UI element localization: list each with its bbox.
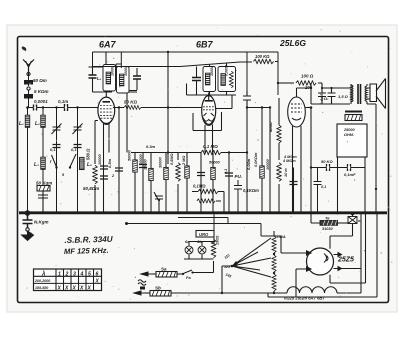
capacitor C9 x=229 — [225, 151, 233, 213]
svg-text:X: X — [95, 278, 100, 284]
svg-text:X: X — [72, 285, 77, 291]
svg-text:0,04m: 0,04m — [246, 158, 251, 170]
wire bus A drops — [93, 52, 248, 91]
capacitor network output — [311, 83, 350, 104]
capacitor C1 series — [34, 105, 37, 111]
capacitor C10 x=247 — [243, 91, 251, 107]
svg-text:10000: 10000 — [144, 159, 148, 170]
wire heater feed below bus — [125, 213, 261, 244]
border frame of schematic sheet — [18, 37, 389, 303]
resistor 5kohm antenna — [24, 87, 49, 108]
tube 25L6G U3 — [288, 97, 306, 213]
capacitor C2 series — [58, 99, 68, 111]
coil L5 — [79, 157, 92, 169]
resistor 100ohm tone — [277, 74, 322, 91]
capacitor C13 x=317.5 — [314, 168, 327, 214]
svg-text:λ: λ — [41, 272, 45, 278]
wire 25L6G grid area — [247, 98, 279, 213]
resistor 50kohm plate 6A7 — [113, 100, 169, 110]
svg-text:Ta: Ta — [325, 216, 330, 221]
resistor 0.1Mohm horizontal above bus — [192, 184, 224, 214]
oscillator coil assembly above 6A7 — [89, 52, 116, 92]
electrolytic block — [337, 124, 367, 157]
svg-text:10000: 10000 — [111, 66, 115, 76]
wire vertical x=247 with label — [246, 106, 251, 213]
svg-text:Fa: Fa — [186, 275, 191, 280]
svg-text:50 Ωm: 50 Ωm — [33, 78, 47, 83]
wire vertical x=168 from top bus to mid bus — [167, 51, 169, 164]
svg-text:10000: 10000 — [210, 66, 214, 76]
svg-text:50 KΩ: 50 KΩ — [321, 159, 333, 164]
svg-text:X: X — [64, 285, 69, 291]
svg-text:N.Kgm: N.Kgm — [34, 220, 49, 225]
svg-text:4: 4 — [80, 271, 84, 277]
svg-text:0,1: 0,1 — [50, 147, 56, 152]
wire mid bus y=152.5 — [131, 152, 247, 154]
svg-text:0,1: 0,1 — [321, 185, 326, 189]
output transformer T3 — [351, 84, 367, 104]
svg-text:0Ω25 25Ωm 6A7 6B7: 0Ω25 25Ωm 6A7 6B7 — [284, 296, 325, 301]
svg-text:1,5 Ω: 1,5 Ω — [338, 94, 349, 99]
resistor 150ohm ballast — [211, 236, 219, 258]
junction dot ground left — [25, 210, 31, 216]
svg-text:Sa: Sa — [161, 267, 167, 272]
svg-text:50 KΩ: 50 KΩ — [124, 100, 138, 105]
wire vertical x=56.5 — [55, 106, 57, 213]
resistor 50ohm antenna — [24, 76, 47, 86]
label box URO — [196, 231, 214, 238]
svg-text:30000: 30000 — [124, 66, 128, 76]
paper speckle noise — [25, 28, 393, 300]
ground bus y=213 — [19, 211, 387, 214]
svg-text:10 m: 10 m — [284, 168, 288, 177]
svg-text:10000: 10000 — [266, 159, 270, 170]
capacitor C6 on x=104 — [100, 166, 108, 179]
svg-text:50 Kgm: 50 Kgm — [36, 181, 52, 186]
svg-text:50000: 50000 — [139, 154, 143, 165]
svg-text:25L6G: 25L6G — [279, 38, 306, 48]
mains squiggle — [138, 280, 146, 290]
resistor 50000 x=135 — [128, 150, 138, 173]
coil L2 — [35, 115, 45, 127]
switch S1 — [50, 155, 58, 169]
tube 6B7 U2 — [202, 93, 216, 126]
svg-text:PU.: PU. — [235, 174, 243, 179]
resistor 600ohm cathode 25L6G — [268, 121, 281, 213]
resistor 0.1Mohm mid bus — [201, 144, 221, 155]
tube label 25L6G — [279, 38, 306, 48]
wire vertical x=119 — [118, 106, 120, 213]
resistor 50000 x=213 — [209, 153, 220, 214]
resistor 10000 x=151 — [144, 153, 154, 214]
wire lower right loop — [268, 213, 377, 297]
svg-text:0,05: 0,05 — [320, 93, 324, 101]
voltage selector fan — [224, 238, 271, 279]
wire rectifier cathode 2 left — [281, 253, 303, 297]
svg-text:1: 1 — [58, 271, 61, 277]
wire vertical x=27.5 to ground bus — [27, 108, 29, 214]
resistor 580ohm cathode 6A7 — [83, 130, 99, 213]
field coil resistor 25000 — [345, 112, 362, 121]
waveband table — [34, 269, 102, 291]
wire plate 25L6G to output — [297, 87, 313, 109]
svg-text:0,0KΩm: 0,0KΩm — [254, 152, 258, 167]
misc value labels — [50, 93, 324, 178]
resistor 100kohm to plate 25L6G — [253, 54, 278, 64]
pilot lamp 6a — [185, 239, 193, 259]
wire vertical x=361 — [360, 213, 362, 293]
resistor 0.5Mohm zigzag x=178 — [170, 153, 180, 214]
svg-text:L₅: L₅ — [87, 162, 92, 168]
svg-text:600Ω: 600Ω — [268, 121, 273, 132]
svg-text:185-580: 185-580 — [35, 286, 48, 290]
label heater string — [284, 296, 325, 301]
text S.B.R. 334U — [64, 235, 114, 245]
wire vertical x=43 — [42, 106, 44, 213]
tube label 6B7 — [196, 40, 214, 50]
ink smudge top left — [21, 46, 27, 52]
wire right edge vertical x=376 — [367, 104, 377, 214]
wire vertical x=77.5 — [76, 106, 78, 213]
svg-text:0,1MΩ: 0,1MΩ — [193, 184, 206, 189]
tube label 6A7 — [99, 40, 117, 50]
svg-text:L₆: L₆ — [97, 76, 102, 81]
svg-text:580.Ω: 580.Ω — [86, 148, 91, 160]
svg-text:0,1: 0,1 — [224, 169, 228, 174]
label 25Z5 — [337, 257, 354, 264]
svg-text:L₂: L₂ — [35, 121, 40, 127]
svg-text:ΩΗΜ.: ΩΗΜ. — [343, 133, 354, 137]
resistor 50kohm with capacitor to ground — [36, 181, 52, 214]
tube 6A7 U1 — [98, 92, 115, 128]
wire right section verticals — [310, 108, 367, 215]
switch Fa contact — [177, 261, 214, 280]
svg-text:0,1mF: 0,1mF — [344, 172, 356, 177]
wire top bus A y=52 — [93, 52, 279, 95]
resistor Ta — [311, 213, 348, 231]
switch S2 — [69, 154, 76, 169]
wire rectifier cathode right — [341, 268, 361, 270]
IF transformer T2 coils above 6B7 — [187, 63, 237, 95]
resistor 20000 Sa — [156, 267, 177, 278]
frame wires around 6B7 — [168, 95, 232, 131]
svg-text:150Ω: 150Ω — [216, 236, 220, 245]
svg-text:MF 125 KHz.: MF 125 KHz. — [64, 246, 109, 256]
svg-text:L₃: L₃ — [34, 162, 39, 168]
svg-text:31030: 31030 — [322, 227, 333, 231]
wire antenna input bus y=107.5 — [26, 106, 99, 109]
wire top bus B y=66 — [93, 62, 253, 67]
wire 6B7 legs down — [205, 125, 213, 153]
svg-text:10000: 10000 — [98, 154, 102, 165]
svg-text:URO: URO — [199, 232, 209, 237]
svg-text:0,0850: 0,0850 — [225, 65, 229, 76]
svg-text:6.3m: 6.3m — [146, 144, 156, 149]
svg-text:X: X — [87, 285, 92, 291]
svg-text:2 MΩ: 2 MΩ — [182, 156, 186, 166]
svg-text:0,1: 0,1 — [71, 147, 77, 152]
svg-text:0,5MΩ: 0,5MΩ — [170, 154, 174, 165]
svg-text:2: 2 — [65, 271, 69, 277]
svg-text:5: 5 — [88, 271, 91, 277]
ground symbol — [22, 231, 34, 241]
svg-text:0,1 MΩ: 0,1 MΩ — [203, 144, 218, 149]
switch Sa line — [141, 272, 156, 276]
capacitor C14 x=293.5 — [282, 159, 298, 213]
coil L3 — [34, 157, 45, 169]
svg-text:X: X — [57, 285, 62, 291]
capacitor C7 x=143 — [139, 153, 147, 214]
pickup PU terminal — [234, 174, 259, 213]
resistor 20000 Sb — [150, 286, 222, 297]
svg-text:200-2000: 200-2000 — [34, 279, 50, 283]
switch Sb line — [134, 291, 150, 295]
capacitor to chassis ground — [23, 215, 49, 231]
wire vertical x=135 — [134, 153, 136, 214]
svg-text:0,1KΩm: 0,1KΩm — [243, 188, 259, 193]
svg-text:.S.B.R. 334U: .S.B.R. 334U — [64, 235, 114, 245]
svg-text:100 Ω: 100 Ω — [301, 74, 314, 79]
svg-text:0,1m: 0,1m — [58, 99, 68, 104]
svg-text:25000: 25000 — [343, 128, 355, 132]
heater string coils — [171, 287, 361, 293]
svg-text:100 KΩ: 100 KΩ — [255, 54, 270, 59]
svg-text:50000: 50000 — [209, 161, 220, 165]
antenna A — [23, 60, 34, 77]
voltage divider resistor URA — [272, 231, 286, 291]
resistor 30000 x=166 — [159, 153, 169, 214]
oscillator coil assembly 2 — [116, 64, 141, 153]
svg-text:3: 3 — [73, 271, 76, 277]
resistor x=187 — [185, 153, 190, 214]
capacitor C12 series y=167.5 — [344, 164, 356, 177]
wire horizontal y=167.5 — [310, 166, 365, 168]
svg-text:Sb: Sb — [155, 286, 161, 291]
rectifier tube 25Z5 U4 — [303, 248, 342, 275]
svg-text:50000: 50000 — [128, 150, 132, 161]
svg-text:4 MΩm: 4 MΩm — [282, 159, 296, 163]
svg-text:L₁: L₁ — [19, 121, 24, 127]
svg-text:0,0001: 0,0001 — [34, 99, 48, 104]
coil L1 — [19, 115, 30, 127]
svg-text:X: X — [79, 285, 84, 291]
switch contact x=159 — [154, 192, 163, 213]
resistor 4Mohm horizontal above bus — [197, 199, 221, 203]
capacitor C11 series y=167.5 — [321, 159, 333, 171]
capacitor C3 — [53, 145, 61, 148]
capacitor C8 x=201 — [197, 153, 205, 214]
svg-text:6B7: 6B7 — [196, 40, 214, 50]
trimmer capacitor CT1 — [52, 124, 62, 135]
svg-text:5 KΩm: 5 KΩm — [34, 89, 49, 94]
wire divider top to rectifier — [261, 236, 281, 253]
wire divider bottom — [221, 266, 275, 294]
resistor x=262 screen dropper — [254, 106, 264, 213]
svg-text:50,8Ωm: 50,8Ωm — [83, 186, 99, 191]
capacitor C5 — [107, 158, 123, 171]
fuse component — [348, 212, 362, 224]
text MF 125 KHz — [64, 246, 109, 256]
wire rectifier plate loop — [330, 214, 366, 283]
wire 6A7 plate legs down — [95, 121, 109, 214]
loudspeaker LS — [367, 79, 386, 109]
svg-text:6: 6 — [96, 271, 99, 277]
svg-text:30000: 30000 — [159, 157, 163, 168]
svg-text:4 MΩm: 4 MΩm — [283, 155, 297, 159]
wire lamp top/bottom bus — [184, 242, 214, 260]
pilot lamp 6b — [197, 239, 206, 259]
trimmer capacitor CT2 — [73, 124, 83, 135]
capacitor C4 — [74, 145, 82, 148]
svg-text:25Z5: 25Z5 — [337, 257, 354, 264]
